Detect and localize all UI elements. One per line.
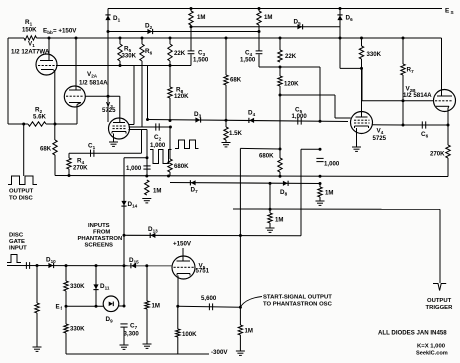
svg-text:1/2 5814A: 1/2 5814A xyxy=(403,92,432,99)
svg-text:5725: 5725 xyxy=(102,107,116,114)
svg-text:PHANTASTRON: PHANTASTRON xyxy=(78,236,123,242)
svg-text:3,300: 3,300 xyxy=(124,331,140,338)
svg-text:1M: 1M xyxy=(275,217,283,224)
svg-text:680K: 680K xyxy=(174,163,189,170)
svg-text:+150V: +150V xyxy=(173,241,192,248)
svg-text:OUTPUT: OUTPUT xyxy=(9,189,34,195)
svg-text:5725: 5725 xyxy=(373,135,387,142)
svg-text:120K: 120K xyxy=(174,93,189,100)
svg-text:DISC: DISC xyxy=(9,233,24,239)
svg-text:22K: 22K xyxy=(285,53,297,60)
svg-text:1M: 1M xyxy=(325,190,333,197)
svg-text:330K: 330K xyxy=(367,51,382,58)
svg-text:TRIGGER: TRIGGER xyxy=(426,305,454,311)
svg-text:1/2 12AT7WA: 1/2 12AT7WA xyxy=(11,49,50,56)
svg-text:-300V: -300V xyxy=(211,349,228,356)
svg-text:22K: 22K xyxy=(174,50,186,57)
svg-text:1/2 5814A: 1/2 5814A xyxy=(79,80,108,87)
svg-text:68K: 68K xyxy=(230,77,242,84)
svg-text:68K: 68K xyxy=(40,146,52,153)
svg-text:1,000: 1,000 xyxy=(292,113,308,120)
svg-text:1.5K: 1.5K xyxy=(229,130,242,137)
svg-text:K=X 1,000: K=X 1,000 xyxy=(417,344,446,350)
svg-text:330K: 330K xyxy=(70,326,85,333)
svg-text:INPUTS: INPUTS xyxy=(88,223,110,229)
svg-text:1,500: 1,500 xyxy=(240,57,256,64)
svg-text:GATE: GATE xyxy=(9,239,25,245)
svg-text:SeekIC.com: SeekIC.com xyxy=(416,351,448,357)
svg-text:= +150V: = +150V xyxy=(53,28,77,35)
svg-text:S: S xyxy=(451,10,454,15)
svg-text:1M: 1M xyxy=(197,14,205,21)
svg-text:FROM: FROM xyxy=(93,230,110,236)
svg-text:E: E xyxy=(56,304,60,311)
svg-text:1,000: 1,000 xyxy=(150,142,166,149)
svg-text:680K: 680K xyxy=(259,153,274,160)
svg-text:100K: 100K xyxy=(182,331,197,338)
svg-text:1M: 1M xyxy=(153,188,161,195)
svg-text:120K: 120K xyxy=(284,81,299,88)
svg-text:1,500: 1,500 xyxy=(193,57,209,64)
svg-text:OUTPUT: OUTPUT xyxy=(427,298,452,304)
svg-text:E: E xyxy=(445,8,450,15)
svg-text:1M: 1M xyxy=(264,14,272,21)
svg-text:270K: 270K xyxy=(73,165,88,172)
svg-text:TO PHANTASTRON OSC: TO PHANTASTRON OSC xyxy=(263,302,333,308)
svg-text:1M: 1M xyxy=(245,328,253,335)
svg-text:START-SIGNAL OUTPUT: START-SIGNAL OUTPUT xyxy=(263,295,332,301)
svg-text:1,000: 1,000 xyxy=(324,161,340,168)
svg-text:150K: 150K xyxy=(22,27,37,34)
svg-text:5,600: 5,600 xyxy=(201,295,217,302)
svg-text:5751: 5751 xyxy=(196,268,210,275)
svg-text:5.6K: 5.6K xyxy=(33,114,46,121)
svg-text:INPUT: INPUT xyxy=(9,246,27,252)
svg-text:330K: 330K xyxy=(122,53,137,60)
svg-text:TO DISC: TO DISC xyxy=(9,196,34,202)
svg-text:330K: 330K xyxy=(70,283,85,290)
svg-text:1,000: 1,000 xyxy=(126,165,142,172)
svg-text:270K: 270K xyxy=(430,151,445,158)
svg-text:1M: 1M xyxy=(152,303,160,310)
svg-text:SCREENS: SCREENS xyxy=(85,243,114,249)
svg-text:ALL DIODES JAN IN458: ALL DIODES JAN IN458 xyxy=(378,330,447,337)
